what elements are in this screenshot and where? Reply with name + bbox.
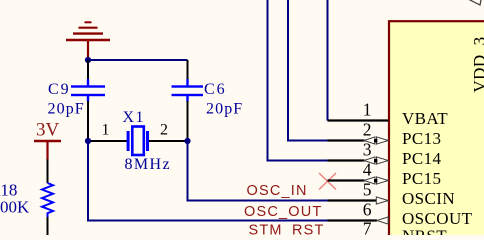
svg-text:STM_RST: STM_RST bbox=[249, 222, 325, 235]
svg-text:1: 1 bbox=[363, 100, 372, 120]
svg-text:2: 2 bbox=[363, 120, 372, 140]
svg-text:4: 4 bbox=[363, 160, 372, 180]
capacitor C9 bbox=[71, 60, 105, 141]
ground bbox=[66, 22, 110, 60]
junction X1 pin1 node bbox=[85, 138, 91, 144]
svg-text:OSC_IN: OSC_IN bbox=[247, 183, 308, 199]
wire OSC_OUT net bbox=[88, 141, 328, 221]
svg-text:NRST: NRST bbox=[402, 227, 447, 236]
svg-text:20pF: 20pF bbox=[48, 101, 85, 118]
svg-text:VBAT: VBAT bbox=[402, 109, 448, 128]
svg-text:20pF: 20pF bbox=[206, 101, 243, 118]
resistor R18 bbox=[42, 160, 53, 236]
svg-text:PC14: PC14 bbox=[402, 149, 441, 168]
svg-text:OSC_OUT: OSC_OUT bbox=[244, 204, 323, 220]
top pin arrow (clipped) bbox=[468, 0, 481, 5]
wire PC14 net bbox=[268, 0, 328, 161]
svg-text:PC13: PC13 bbox=[402, 129, 441, 148]
svg-text:8MHz: 8MHz bbox=[125, 156, 171, 173]
pin 4 PC15 bbox=[328, 179, 365, 181]
wire OSC_IN net bbox=[188, 141, 328, 201]
svg-text:OSCOUT: OSCOUT bbox=[402, 209, 473, 228]
crystal X1 bbox=[88, 127, 188, 156]
pin 1 VBAT bbox=[328, 119, 389, 121]
pin 5 OSCIN bbox=[328, 199, 377, 201]
svg-text:3V: 3V bbox=[36, 119, 60, 140]
pin 3 PC14 bbox=[328, 159, 365, 161]
svg-text:X1: X1 bbox=[123, 109, 145, 126]
power port 3V bbox=[34, 141, 61, 160]
wire gnd horizontal bbox=[88, 59, 188, 61]
svg-text:7: 7 bbox=[363, 219, 372, 236]
pin 2 PC13 bbox=[328, 139, 365, 141]
pin 6 OSCOUT bbox=[328, 219, 378, 221]
svg-text:100K: 100K bbox=[0, 198, 30, 217]
svg-text:1: 1 bbox=[102, 121, 110, 138]
svg-text:C9: C9 bbox=[48, 81, 71, 98]
wire PC13 net bbox=[288, 0, 328, 141]
capacitor C6 bbox=[172, 60, 204, 141]
svg-text:C6: C6 bbox=[204, 81, 227, 98]
junction X1 pin2 node bbox=[184, 138, 190, 144]
svg-text:OSCIN: OSCIN bbox=[402, 189, 455, 208]
svg-text:5: 5 bbox=[363, 180, 372, 200]
svg-text:6: 6 bbox=[363, 200, 372, 220]
no-ERC cross (pin 4 PC15) bbox=[319, 173, 336, 190]
svg-text:2: 2 bbox=[160, 121, 168, 138]
wire VBAT net bbox=[327, 0, 329, 121]
junction gnd node bbox=[85, 57, 91, 63]
svg-text:3: 3 bbox=[363, 140, 372, 160]
ic U1 (STM32) body bbox=[389, 21, 484, 240]
svg-text:VDD_3: VDD_3 bbox=[470, 36, 484, 92]
svg-text:PC15: PC15 bbox=[402, 169, 441, 188]
